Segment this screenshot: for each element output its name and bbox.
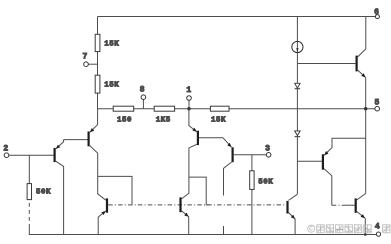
wire Q1 emitter to Q2 base [64, 139, 88, 141]
svg-text:7: 7 [83, 52, 88, 61]
transistor Q8 current mirror [181, 148, 189, 235]
transistor Q1 [55, 140, 64, 235]
wire Q2 collector to mirror bias [98, 176, 132, 205]
node pin 1 [186, 86, 191, 111]
node pin 3 [265, 145, 271, 158]
current source I1 [292, 41, 303, 52]
svg-text:15K: 15K [104, 82, 119, 90]
resistor R6 50K [27, 155, 51, 234]
diode D2 [295, 131, 301, 137]
svg-text:6: 6 [374, 8, 379, 17]
svg-text:50K: 50K [258, 179, 273, 187]
svg-text:5: 5 [375, 98, 380, 107]
wire base of Q5 [297, 63, 355, 65]
wire diode column [296, 17, 298, 195]
transistor Q7 current mirror [98, 198, 107, 234]
node pin 8 [140, 86, 146, 109]
transistor Q6 [323, 138, 366, 205]
resistor R4 1K5 [154, 106, 174, 125]
wire base of Q6 [297, 160, 321, 162]
resistor R2 15K [95, 75, 119, 93]
transistor Q5 [357, 17, 366, 194]
diode D1 [295, 83, 300, 88]
transistor Q3 [189, 109, 198, 148]
svg-text:15K: 15K [104, 41, 119, 49]
svg-text:8: 8 [140, 86, 145, 95]
transistor Q9 current mirror [288, 194, 298, 234]
svg-text:2: 2 [3, 144, 8, 153]
wire top supply rail [98, 16, 376, 18]
watermark [308, 225, 391, 233]
svg-text:15K: 15K [211, 117, 226, 125]
wire Q3 base to Q4 emitter [199, 138, 232, 148]
wire left column top [97, 17, 99, 109]
svg-text:4: 4 [375, 223, 380, 232]
node pin 6 [374, 8, 379, 18]
wire common base dash line A [108, 204, 286, 206]
resistor R5 15K [210, 106, 229, 125]
node pin 7 [83, 52, 98, 66]
transistor Q2 [89, 109, 106, 201]
resistor R1 15K [95, 34, 119, 51]
transistor Q10 output [356, 194, 367, 236]
node pin 4 [375, 223, 381, 237]
wire mid bias rail [98, 108, 376, 110]
wire bottom supply rail [29, 234, 376, 236]
wire Q3 collector to dash line [189, 177, 210, 205]
node pin 2 [3, 144, 8, 157]
svg-text:150: 150 [117, 117, 132, 125]
svg-text:1K5: 1K5 [156, 117, 171, 125]
wire input 2 to Q1 base [9, 154, 54, 156]
svg-text:3: 3 [265, 145, 270, 154]
svg-text:1: 1 [186, 86, 191, 95]
node pin 5 [364, 98, 380, 111]
wire dash line B [332, 204, 346, 206]
wire Q4 base to pin 3 [234, 154, 267, 156]
resistor R7 50K [250, 155, 274, 235]
transistor Q4 [224, 143, 233, 235]
svg-text:50K: 50K [36, 189, 51, 197]
resistor R3 150 [113, 106, 134, 125]
